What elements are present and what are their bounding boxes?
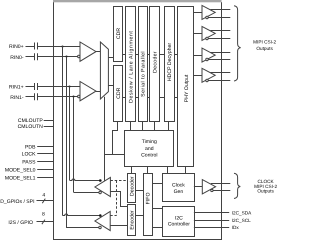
wire mux to CDR2 bbox=[108, 85, 113, 87]
buffer U2 MIPI lane 0 bbox=[193, 5, 230, 19]
svg-text:I2S / GPIO: I2S / GPIO bbox=[8, 220, 33, 226]
wire RIN1+ to T1 with hop bbox=[70, 179, 100, 181]
wire RIN0+ vertical bbox=[62, 46, 64, 216]
wire T1 to decoder dashed bbox=[110, 180, 127, 182]
gray top band bbox=[53, 0, 222, 2]
pin I2C_SCL bbox=[194, 218, 251, 223]
pin CMLOUTN bbox=[18, 124, 53, 130]
pin IDx bbox=[194, 225, 239, 230]
wire RIN0- vertical bbox=[66, 57, 68, 228]
node RIN0- junction bbox=[65, 55, 67, 57]
wire RIN1- vertical bbox=[73, 97, 75, 192]
svg-text:LOCK: LOCK bbox=[22, 151, 36, 157]
back-channel driver T2 bbox=[95, 211, 110, 230]
wire Deskew to Serial bbox=[136, 54, 139, 56]
svg-text:Decoder: Decoder bbox=[153, 51, 159, 73]
pin MODE_SEL0 bbox=[5, 168, 53, 174]
node RIN1+ junction bbox=[68, 85, 70, 87]
op-amp A1 input buffer ch0 bbox=[78, 42, 96, 61]
block PHY Output bbox=[178, 7, 194, 167]
svg-text:RIN0+: RIN0+ bbox=[9, 44, 24, 50]
block Clock Gen bbox=[163, 174, 195, 202]
svg-text:Clock: Clock bbox=[172, 182, 185, 188]
wire Deskew to Serial ch2 bbox=[136, 97, 139, 99]
svg-text:Outputs: Outputs bbox=[256, 46, 273, 51]
pin PASS bbox=[22, 160, 53, 166]
wire deskew to timing bbox=[130, 121, 132, 130]
block CDR1 bbox=[114, 7, 123, 62]
svg-text:PHY Output: PHY Output bbox=[184, 74, 190, 102]
buffer U6 clock output bbox=[194, 180, 230, 194]
wire timing to clock gen bbox=[167, 166, 169, 174]
wire CDR1 to Deskew bbox=[123, 54, 126, 56]
pin I2C_SDA bbox=[194, 211, 252, 216]
svg-text:Deskew / Lane Alignment: Deskew / Lane Alignment bbox=[128, 31, 134, 103]
wire RIN0+ to T2 with hop bbox=[63, 214, 100, 216]
svg-text:HDCP Decypher: HDCP Decypher bbox=[167, 43, 173, 82]
wire fifo to clock gen bbox=[152, 183, 162, 185]
block Timing and Control bbox=[125, 131, 174, 167]
block FIFO bbox=[144, 174, 153, 236]
pin RIN1+ bbox=[9, 85, 80, 91]
label MIPI CSI-2 Outputs bbox=[253, 40, 276, 51]
wire CDR2 to Deskew ch2 bbox=[123, 97, 126, 99]
wire mux select into timing bbox=[105, 154, 125, 156]
pin MODE_SEL1 bbox=[5, 176, 53, 182]
block Decoder bbox=[128, 174, 136, 203]
wire encoder to fifo bbox=[136, 215, 144, 217]
wire timing to fifo bbox=[147, 166, 149, 173]
wire HDCP to PHY ch2 bbox=[175, 97, 178, 99]
node RIN0+ junction bbox=[61, 45, 63, 47]
svg-text:MODE_SEL0: MODE_SEL0 bbox=[5, 168, 36, 174]
wire Serial to Decoder ch2 bbox=[148, 97, 150, 99]
pin D_GPIOs / SPI bus of 4 bbox=[0, 192, 53, 205]
block I2C Controller bbox=[163, 207, 195, 237]
svg-text:Decoder: Decoder bbox=[130, 176, 136, 196]
brace MIPI outputs bbox=[234, 6, 241, 81]
svg-text:RIN1+: RIN1+ bbox=[9, 85, 24, 91]
pin RIN1- bbox=[10, 95, 77, 101]
pin CMLOUTP bbox=[18, 118, 53, 124]
wire timing to decoder box bbox=[131, 166, 133, 173]
pin PDB bbox=[25, 145, 53, 151]
wire mux select vertical bbox=[104, 97, 106, 181]
svg-text:Gen: Gen bbox=[174, 189, 184, 195]
wire T2 to dashed vertical bbox=[110, 215, 116, 217]
svg-text:MODE_SEL1: MODE_SEL1 bbox=[5, 176, 36, 182]
block Serial to Parallel bbox=[139, 7, 148, 122]
chip outline U1 bbox=[54, 2, 222, 239]
wire fifo to i2c 1 bbox=[152, 208, 162, 210]
node RIN1- junction bbox=[72, 95, 74, 97]
block HDCP Decypher bbox=[165, 7, 175, 122]
label CLOCK MIPI CSI-2 Outputs bbox=[254, 179, 277, 194]
svg-text:Controller: Controller bbox=[168, 222, 190, 228]
block CDR2 bbox=[114, 66, 123, 122]
capacitor C3 bbox=[35, 83, 38, 90]
svg-text:D_GPIOs / SPI: D_GPIOs / SPI bbox=[0, 199, 34, 205]
svg-text:CDR: CDR bbox=[116, 28, 122, 39]
buffer U5 MIPI lane 3 bbox=[193, 68, 230, 82]
block Decoder column bbox=[150, 7, 160, 122]
capacitor C1 bbox=[35, 43, 38, 50]
svg-text:FIFO: FIFO bbox=[146, 192, 152, 204]
svg-text:CMLOUTN: CMLOUTN bbox=[18, 124, 44, 130]
svg-text:PASS: PASS bbox=[22, 160, 36, 166]
wire hdcp to timing bbox=[168, 121, 170, 130]
wire T1 to encoder bbox=[110, 192, 127, 207]
wire dashed vertical bbox=[116, 181, 118, 216]
svg-text:Serial to Parallel: Serial to Parallel bbox=[140, 51, 146, 97]
pin LOCK bbox=[22, 151, 53, 157]
op-amp A2 input buffer ch1 bbox=[78, 82, 96, 101]
svg-text:IDx: IDx bbox=[232, 225, 240, 230]
svg-text:and: and bbox=[145, 146, 154, 152]
wire serial to timing bbox=[142, 121, 144, 130]
wire fifo to i2c 2 bbox=[152, 227, 162, 229]
wire A1 output bbox=[96, 51, 100, 53]
svg-text:CDR: CDR bbox=[116, 87, 122, 98]
svg-text:Outputs: Outputs bbox=[257, 189, 274, 194]
wire decoder to fifo bbox=[136, 190, 144, 192]
svg-text:4: 4 bbox=[42, 192, 45, 198]
capacitor C4 bbox=[35, 93, 38, 100]
wire Serial to Decoder bbox=[147, 54, 150, 56]
pin I2S / GPIO bus of 8 bbox=[8, 211, 53, 226]
svg-text:PDB: PDB bbox=[25, 145, 36, 151]
svg-text:I2C_SDA: I2C_SDA bbox=[232, 211, 252, 216]
svg-text:RIN0-: RIN0- bbox=[10, 55, 24, 61]
block Encoder bbox=[128, 205, 136, 236]
back-channel driver T1 bbox=[95, 177, 111, 196]
wire CDR to timing elbow bbox=[113, 121, 118, 155]
wire T2 to encoder bbox=[110, 225, 127, 227]
wire Decoder to HDCP ch2 bbox=[160, 97, 165, 99]
svg-text:I2C_SCL: I2C_SCL bbox=[232, 218, 251, 223]
block Deskew / Lane Alignment bbox=[126, 7, 136, 122]
svg-text:Encoder: Encoder bbox=[130, 210, 136, 230]
wire Decoder to HDCP bbox=[160, 54, 164, 56]
wire decoder col to timing bbox=[154, 121, 156, 130]
wire A2 output bbox=[96, 91, 100, 93]
wire RIN0- to T2 bbox=[66, 227, 99, 229]
mux M1 bbox=[100, 42, 108, 99]
wire mux to CDR1 bbox=[108, 57, 113, 59]
buffer U3 MIPI lane 1 bbox=[193, 26, 230, 40]
capacitor C2 bbox=[35, 53, 38, 60]
wire HDCP to PHY bbox=[174, 54, 178, 56]
pin RIN0- bbox=[10, 55, 77, 61]
wire phy to clock gen bbox=[185, 166, 187, 174]
svg-text:Control: Control bbox=[141, 152, 157, 158]
pin RIN0+ bbox=[9, 44, 80, 50]
wire RIN1- to T1 bbox=[73, 192, 99, 194]
svg-text:MIPI CSI-2: MIPI CSI-2 bbox=[253, 40, 276, 45]
buffer U4 MIPI lane 2 bbox=[193, 48, 230, 62]
svg-text:8: 8 bbox=[42, 211, 45, 217]
svg-text:RIN1-: RIN1- bbox=[10, 95, 24, 101]
svg-text:CMLOUTP: CMLOUTP bbox=[18, 118, 44, 124]
wire RIN1+ vertical bbox=[69, 87, 71, 181]
svg-text:Timing: Timing bbox=[142, 139, 157, 145]
brace clock outputs bbox=[234, 173, 240, 198]
